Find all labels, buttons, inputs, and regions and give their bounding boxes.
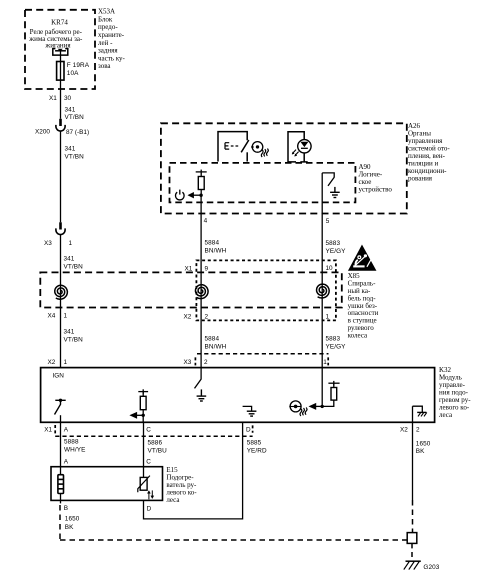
svg-text:устройство: устройство [359,185,393,193]
label X1 pin A [44,426,69,433]
svg-text:5885: 5885 [247,440,262,447]
svg-text:341: 341 [65,145,76,152]
ground in K32 (D branch) [243,406,257,416]
svg-text:X2: X2 [48,359,56,366]
svg-text:храните-: храните- [98,31,125,39]
label E15 [166,466,197,504]
svg-text:9: 9 [205,265,209,272]
svg-text:D: D [246,426,251,433]
wire 341 VT/BN X200 to X3 [60,131,62,222]
svg-text:BK: BK [65,524,74,531]
svg-text:4: 4 [204,218,208,225]
pin X1 30 [49,95,72,102]
label pin 1 (X85 bottom right) [326,313,330,320]
svg-text:341: 341 [65,107,76,114]
resistor in A90 (driver output) [196,170,207,196]
switch icon with E (heater control switch) [218,132,249,162]
svg-text:2: 2 [204,359,208,366]
svg-text:1: 1 [326,313,330,320]
wire pin1 down to driver junction [321,368,324,408]
svg-text:KR74: KR74 [51,19,68,27]
junction node and arrow (C driver) [130,412,145,418]
label pin 4 [204,218,208,225]
fuse block X53A (dashed enclosure) [25,10,95,89]
svg-text:87 (-B1): 87 (-B1) [66,129,89,136]
label wire 5884 BN/WH (upper) [205,240,227,255]
svg-text:BN/WH: BN/WH [205,247,227,254]
svg-text:5886: 5886 [148,440,163,447]
label wire 341 VT/BN (mid) [65,145,85,160]
svg-text:YE/GY: YE/GY [326,248,347,255]
svg-text:X3: X3 [184,359,192,366]
label pin 1 (K32 top right) [323,359,327,366]
wire stub B below E15 [60,500,62,503]
svg-text:задняя: задняя [98,47,118,55]
svg-text:341: 341 [64,328,75,335]
svg-text:B: B [64,505,68,512]
label X2 pin 2 (X85 bottom middle) [184,313,209,320]
connector X200 [56,119,65,131]
wire 5884 BN/WH X85 to K32 [200,291,202,368]
ground G203 [404,561,421,569]
wire 5888 WH/YE A to E15 [60,422,62,466]
svg-text:IGN: IGN [53,373,65,380]
label A26 [408,122,450,183]
svg-text:1: 1 [69,240,73,247]
svg-text:5883: 5883 [326,336,341,343]
label wire 341 VT/BN (below X3) [64,255,84,270]
svg-text:A: A [64,458,69,465]
HVAC control module A26 (dashed enclosure) [161,123,407,213]
svg-text:рования: рования [408,174,433,182]
chassis ground in K32 (X2-2) [413,406,427,416]
switch to ground in A90 [322,173,334,186]
heater indicator circle in K32 [289,401,307,416]
label pin D (E15) [147,505,152,512]
wire 5883 YE/GY X85 to K32 [321,290,323,367]
spiral coil (right wire) [317,284,330,298]
label X3 pin 2 (K32 top) [184,359,209,366]
svg-text:BN/WH: BN/WH [205,344,227,351]
svg-text:F 19RA: F 19RA [67,62,90,69]
svg-text:X2: X2 [184,313,192,320]
svg-text:YE/GY: YE/GY [326,344,347,351]
svg-text:A: A [64,426,69,433]
svg-text:X1: X1 [185,265,193,272]
thermistor in E15 [138,476,154,500]
svg-text:1650: 1650 [65,516,80,523]
label KR74 relay name [28,19,83,50]
svg-text:30: 30 [64,95,72,102]
power icon (standby symbol) [176,190,185,200]
svg-text:BK: BK [416,448,425,455]
svg-text:X1: X1 [49,95,57,102]
svg-text:10A: 10A [67,70,79,77]
svg-text:VT/BN: VT/BN [64,336,84,343]
wire relay to fuse [60,51,62,62]
heated steering wheel control module K32 [41,368,435,423]
wire 341 VT/BN X3 to K32 [60,235,62,368]
indicator circle with heat waves (switch icon) [251,142,268,157]
label wire 5883 YE/GY (upper) [326,240,347,255]
label wire 5885 YE/RD [247,440,267,455]
svg-text:341: 341 [64,255,75,262]
svg-text:лей -: лей - [98,39,113,47]
arrow from heater driver [309,403,322,409]
wire 5886 VT/BU C to E15 [143,422,145,477]
wire 1650 BK from X2-2 [412,422,414,532]
svg-text:YE/RD: YE/RD [247,447,267,454]
splice S? junction square [407,533,417,544]
label pin B (E15) [64,505,68,512]
label X85 [348,272,379,339]
coil cable X85 (dotted enclosure) [196,260,336,320]
label pin C (E15) [146,458,151,465]
svg-text:X2: X2 [400,426,408,433]
svg-text:2: 2 [416,426,420,433]
svg-text:колеса: колеса [348,331,368,339]
svg-text:2: 2 [205,313,209,320]
switch to ground in K32 (X3-2 input) [195,368,202,389]
label X3 pin 1 [44,240,73,247]
svg-text:X4: X4 [48,313,56,320]
label fuse value F19RA 10A [67,62,90,77]
fuse F19RA [57,62,64,81]
svg-text:X3: X3 [44,240,52,247]
svg-text:5883: 5883 [326,240,341,247]
svg-text:WH/YE: WH/YE [64,446,85,453]
wire fuse to X1 pin [60,80,62,119]
label X53A [98,8,126,71]
label wire 341 VT/BN (below X4) [64,328,84,343]
wire 1650 BK dashed route from B [60,505,407,540]
svg-text:1650: 1650 [416,440,431,447]
label pin 5 [326,218,330,225]
svg-text:зова: зова [98,62,111,70]
svg-text:G203: G203 [423,564,439,571]
label pin C [146,426,151,433]
svg-text:VT/BN: VT/BN [65,114,85,121]
wire X2-2 inside K32 [412,406,414,422]
label wire 5883 YE/GY (lower) [326,336,347,351]
svg-text:5: 5 [326,218,330,225]
svg-text:1: 1 [64,359,68,366]
arrow to power icon [188,193,201,198]
heating element in E15 [58,467,64,501]
label X4 pin 1 [48,313,68,320]
svg-text:леса: леса [439,411,453,419]
wire splice to ground G203 [411,543,413,558]
airbag warning triangle [349,246,376,271]
label X2 pin 1 (into K32) [48,359,68,366]
LED indicator icon [288,132,311,162]
label X200 87 (-B1) [35,129,89,136]
svg-text:10: 10 [326,265,334,272]
switch in K32 (ignition sense) [55,399,66,423]
wire A90 pin 4 down to X85 [200,195,202,291]
label wire 5888 WH/YE [64,439,85,454]
label wire 341 VT/BN (top) [65,107,85,122]
svg-text:5884: 5884 [205,240,220,247]
relay KR74 contact symbol [53,49,68,56]
svg-text:Блок: Блок [98,15,113,23]
label pin A (E15) [64,458,69,465]
connector X3 [56,222,65,234]
svg-text:X53A: X53A [98,8,115,16]
ground in K32 (switch) [197,389,207,401]
connector X1 dashed row on K32 bottom [55,425,252,436]
svg-text:5884: 5884 [205,336,220,343]
label wire 1650 BK (right) [416,440,431,455]
ground in A90 [330,187,340,198]
wire A90 pin 5 down to X85 [321,173,323,291]
label A90 [359,163,393,194]
label G203 [423,564,439,571]
wire 5885 YE/RD D to E15 [144,422,243,519]
svg-text:VT/BU: VT/BU [148,447,168,454]
steering wheel boundary (wide dashed enclosure) [40,272,342,307]
junction node in A90 [199,194,202,197]
svg-text:леса: леса [166,496,180,504]
steering wheel heater E15 [51,467,163,501]
svg-text:X200: X200 [35,129,50,136]
svg-text:C: C [146,426,151,433]
svg-text:5888: 5888 [64,439,79,446]
spiral coil (left wire) [55,285,68,299]
svg-text:часть ку-: часть ку- [98,54,126,62]
label pin 10 [326,265,334,272]
label X1 pin 9 [185,265,209,272]
svg-text:VT/BN: VT/BN [64,263,84,270]
svg-text:D: D [147,505,152,512]
svg-text:предо-: предо- [98,23,118,31]
label wire 5886 VT/BU [148,440,168,455]
svg-text:X1: X1 [44,426,52,433]
svg-text:1: 1 [323,359,327,366]
label pin D [246,426,251,433]
resistor with supply bar (driver for C output) [138,389,148,422]
spiral coil (middle wire) [196,285,209,299]
svg-text:VT/BN: VT/BN [65,154,85,161]
label K32 [439,366,471,419]
label wire 5884 BN/WH (lower) [205,336,227,351]
label wire 1650 BK (left) [65,516,80,531]
logic device A90 (dashed enclosure) [170,163,356,203]
svg-text:1: 1 [64,313,68,320]
resistor with supply bar (heater driver) [322,381,339,407]
label X2 pin 2 (K32 bottom right) [400,426,420,433]
connector X3 dashed row on K32 [195,354,328,366]
label IGN node [53,373,65,380]
svg-text:C: C [146,458,151,465]
